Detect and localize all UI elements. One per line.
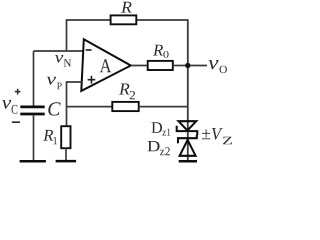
zener diode Dz2 triangle: [180, 140, 196, 156]
op-amp minus input sign: [86, 49, 92, 51]
wire R2 to right rail: [139, 106, 188, 108]
capacitor C bottom plate: [20, 113, 44, 116]
wire capacitor to ground: [33, 115, 35, 161]
wire top run from R to right corner: [136, 19, 188, 21]
label vC: [2, 100, 11, 109]
junction dot output node: [185, 63, 190, 68]
resistor R1: [61, 126, 70, 148]
label vO: [208, 60, 218, 69]
zener diode Dz1 cathode bar: [177, 126, 198, 135]
wire op-amp output to R0: [131, 65, 148, 67]
plus sign of vC: [15, 89, 21, 95]
wire R1 to ground: [65, 148, 67, 160]
resistor R2: [112, 102, 138, 111]
label plus-minus VZ: [202, 129, 210, 139]
op-amp A triangle: [81, 39, 131, 91]
label Dz2: [148, 141, 160, 151]
wire vN node down to capacitor: [33, 51, 35, 106]
node vN: [55, 55, 63, 63]
capacitor C top plate: [20, 106, 44, 109]
resistor R0: [148, 61, 173, 70]
resistor R: [111, 15, 137, 24]
node vP: [47, 77, 56, 85]
wire non-inverting input from vP node: [67, 82, 83, 126]
minus sign of vC: [12, 121, 20, 123]
wire node vN to op-amp inverting input: [34, 50, 84, 52]
ground middle: [56, 160, 77, 163]
label Dz1: [152, 122, 163, 133]
op-amp plus input sign: [88, 76, 96, 84]
wire output stub to vO: [190, 65, 207, 67]
zener diode Dz2 cathode bar: [178, 135, 197, 144]
wire vP vertical to R2: [67, 106, 113, 108]
ground left: [20, 160, 46, 163]
wire feedback left vertical and top run to R: [67, 20, 111, 51]
ground right: [179, 160, 197, 163]
wire right vertical rail: [187, 19, 189, 161]
zener diode Dz1 triangle: [179, 121, 197, 130]
wire R0 to output node: [173, 65, 188, 67]
